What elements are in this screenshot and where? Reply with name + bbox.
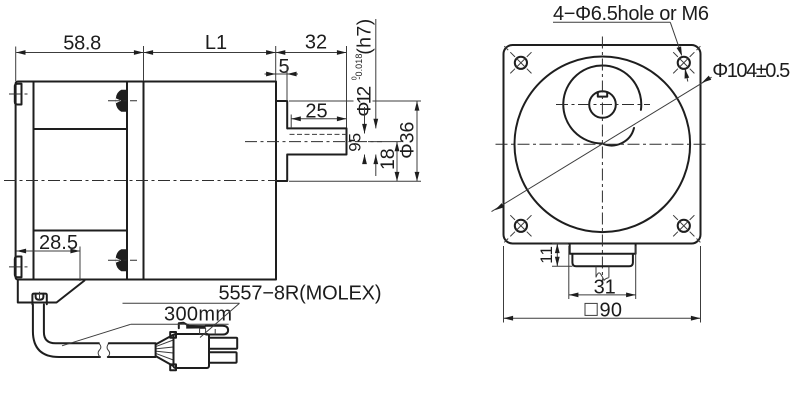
boss top extension (289, 100, 421, 102)
connector ear upper (170, 332, 176, 338)
dimension line Phi12 (375, 19, 377, 128)
gearbox/motor interface line (143, 82, 145, 280)
motor body circle (515, 57, 691, 233)
vertical centerline (601, 37, 603, 285)
flange bolt upper centerline (108, 100, 137, 102)
cable bend inner (44, 305, 99, 344)
dimension square-90 (585, 303, 597, 315)
svg-text:5: 5 (278, 56, 289, 78)
left tab upper centerline (9, 93, 29, 95)
shaft keyway notch (598, 93, 607, 97)
connector latch hook tip (179, 323, 188, 328)
shaft centerline (245, 141, 382, 143)
cable straight section (108, 343, 156, 357)
svg-text:11: 11 (537, 246, 556, 264)
svg-text:Φ104±0.5: Φ104±0.5 (712, 60, 790, 82)
gearbox horizontal line upper (34, 128, 128, 130)
cable gland nub (32, 294, 46, 305)
svg-text:300mm: 300mm (164, 303, 232, 325)
output shaft circle (589, 91, 616, 118)
connector terminal lower (209, 352, 237, 363)
svg-text:L1: L1 (205, 32, 227, 54)
svg-text:5557−8R(MOLEX): 5557−8R(MOLEX) (219, 283, 382, 305)
output shaft (288, 128, 347, 154)
connector latch stem (200, 328, 206, 334)
mounting flange square (504, 45, 701, 244)
connector body (174, 334, 210, 368)
Phi104 diagonal dimension line (492, 77, 712, 211)
shaft keyway hidden line (290, 133, 347, 135)
boss bottom extension (289, 180, 421, 182)
mounting hole BR (678, 220, 690, 232)
gearhead spiral (563, 66, 641, 146)
horizontal centerline (496, 143, 710, 145)
connector ear lower (170, 364, 176, 370)
bearing boss (276, 101, 287, 181)
mounting hole BL (515, 220, 527, 232)
gearbox+motor body outline (16, 82, 276, 280)
svg-text:(h7): (h7) (354, 19, 376, 55)
gearbox inner vertical line (33, 82, 35, 280)
connector latch arm (186, 325, 205, 329)
left face screw tab lower (15, 257, 22, 278)
gearbox horizontal line lower (34, 230, 128, 232)
svg-text:4−Φ6.5hole or M6: 4−Φ6.5hole or M6 (553, 3, 709, 25)
svg-text:-0.018: -0.018 (354, 54, 364, 80)
cable break squiggle right (107, 343, 110, 357)
flange bolt upper (116, 90, 127, 112)
mounting hole TR (678, 57, 690, 69)
terminal box (18, 280, 85, 303)
left tab lower centerline (9, 266, 29, 268)
cable stubs (596, 267, 609, 278)
gearbox flange line (126, 82, 128, 280)
svg-text:32: 32 (305, 32, 327, 54)
body centerline (4, 180, 277, 182)
cable bend outer (33, 305, 100, 358)
connector latch end hook (206, 326, 229, 335)
terminal cover flange (570, 244, 636, 267)
left face screw tab upper (15, 84, 22, 105)
flange bolt lower centerline (108, 259, 137, 261)
mounting hole TL (515, 57, 527, 69)
wire fan wedge (156, 335, 173, 366)
svg-text:58.8: 58.8 (63, 33, 101, 55)
svg-text:95: 95 (346, 133, 365, 152)
cable break squiggle left (98, 343, 101, 357)
shaft horizontal centerline (556, 104, 650, 106)
svg-text:Φ36: Φ36 (397, 122, 419, 159)
connector terminal upper (209, 338, 237, 349)
flange bolt lower (116, 249, 127, 271)
